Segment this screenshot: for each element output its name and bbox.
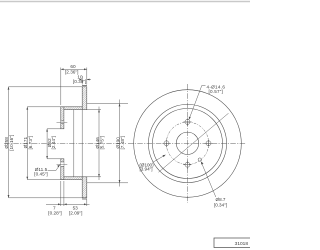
bolt hole right bbox=[204, 139, 212, 147]
screw hole Ø8.7 bbox=[198, 158, 201, 161]
svg-text:[0.57"]: [0.57"] bbox=[209, 89, 224, 94]
circle Ø171 bbox=[153, 109, 223, 179]
svg-text:[10.16"]: [10.16"] bbox=[9, 135, 14, 151]
dim Ø171 bbox=[23, 107, 61, 180]
svg-text:[0.39"]: [0.39"] bbox=[73, 79, 86, 84]
dim Ø62 bore bbox=[46, 129, 61, 159]
bolt hole bottom bbox=[183, 161, 191, 169]
dim Ø146 right bbox=[87, 107, 104, 180]
svg-text:[3.94"]: [3.94"] bbox=[139, 167, 152, 172]
hat wall lower bbox=[61, 177, 82, 180]
bolt hole left bbox=[162, 139, 170, 147]
label 4-Ø14.6 leader bbox=[189, 84, 225, 119]
svg-text:[0.45"]: [0.45"] bbox=[34, 172, 47, 177]
flange upper bbox=[61, 107, 64, 129]
centerline left view bbox=[4, 142, 126, 144]
hat wall upper bbox=[61, 107, 82, 110]
dim 7 and 53 bottom bbox=[46, 181, 90, 215]
bolt hole top bbox=[183, 118, 191, 126]
dim 60 top bbox=[61, 64, 87, 105]
svg-text:31018: 31018 bbox=[235, 241, 249, 247]
svg-text:[2.36"]: [2.36"] bbox=[65, 69, 78, 74]
bolt hole gap lower flange bbox=[57, 162, 68, 167]
top page border bbox=[0, 1, 250, 3]
outer circle Ø258 bbox=[134, 90, 242, 198]
bolt circle Ø100 dashed bbox=[166, 122, 208, 164]
svg-text:Ø8.7: Ø8.7 bbox=[216, 197, 226, 202]
bolt hole gap upper flange bbox=[57, 121, 68, 124]
right view centerlines bbox=[128, 142, 246, 144]
svg-text:[0.28"]: [0.28"] bbox=[48, 210, 61, 215]
dim 10 top bbox=[73, 74, 91, 84]
label Ø11.5 leader bbox=[34, 165, 60, 177]
dim Ø258 bbox=[4, 87, 82, 198]
band upper (section) bbox=[82, 87, 87, 110]
part number box 31018 bbox=[214, 238, 254, 248]
label (Ø100) leader bbox=[139, 155, 165, 172]
flange lower bbox=[61, 159, 64, 180]
drum braking surface edge line bbox=[81, 110, 83, 177]
diagonal line through center bbox=[159, 113, 229, 172]
svg-text:[2.44"]: [2.44"] bbox=[51, 136, 56, 149]
label Ø8.7 leader bbox=[201, 162, 227, 208]
drum interior edge line bbox=[73, 110, 75, 177]
band bottom cap bbox=[82, 198, 87, 200]
circle Ø190 bbox=[148, 104, 226, 182]
svg-text:[7.48"]: [7.48"] bbox=[120, 136, 125, 149]
svg-text:[6.73"]: [6.73"] bbox=[28, 136, 33, 149]
svg-text:[0.34"]: [0.34"] bbox=[214, 203, 227, 208]
dim Ø190 right bbox=[87, 100, 128, 187]
band top cap bbox=[82, 85, 87, 87]
svg-text:[2.09"]: [2.09"] bbox=[69, 210, 82, 215]
band lower (section) bbox=[82, 177, 87, 198]
svg-text:[5.75"]: [5.75"] bbox=[99, 136, 104, 149]
center bore Ø62 bbox=[176, 132, 198, 154]
